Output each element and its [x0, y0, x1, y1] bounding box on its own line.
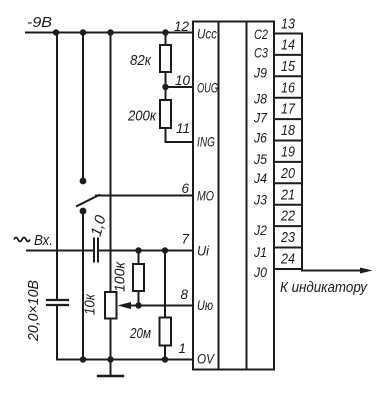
- svg-text:J6: J6: [253, 130, 267, 146]
- svg-text:11: 11: [176, 121, 190, 136]
- svg-text:14: 14: [281, 38, 295, 54]
- svg-text:MO: MO: [197, 188, 214, 204]
- svg-text:Вх.: Вх.: [34, 232, 53, 249]
- svg-text:100к: 100к: [112, 261, 129, 292]
- svg-text:21: 21: [280, 188, 295, 204]
- svg-text:6: 6: [181, 181, 189, 196]
- svg-text:20,0×10В: 20,0×10В: [25, 280, 42, 342]
- svg-text:-9В: -9В: [27, 14, 52, 31]
- svg-text:J7: J7: [253, 110, 268, 126]
- svg-text:J3: J3: [253, 192, 267, 208]
- svg-text:12: 12: [174, 19, 190, 34]
- svg-text:16: 16: [281, 81, 296, 97]
- svg-text:1: 1: [178, 341, 186, 356]
- svg-text:82к: 82к: [130, 52, 152, 69]
- svg-text:J1: J1: [253, 244, 267, 260]
- svg-text:22: 22: [280, 209, 295, 225]
- svg-text:10: 10: [175, 73, 191, 88]
- svg-text:18: 18: [281, 123, 295, 139]
- svg-text:Ui: Ui: [197, 243, 210, 259]
- svg-text:J5: J5: [253, 151, 267, 167]
- svg-text:1,0: 1,0: [88, 213, 110, 238]
- svg-text:20м: 20м: [129, 325, 151, 342]
- svg-text:24: 24: [280, 252, 295, 268]
- svg-text:8: 8: [180, 287, 188, 302]
- svg-text:C2: C2: [254, 26, 268, 42]
- svg-text:J4: J4: [253, 170, 267, 186]
- svg-text:13: 13: [281, 17, 295, 33]
- svg-text:J8: J8: [253, 91, 267, 107]
- svg-text:C3: C3: [254, 45, 268, 61]
- svg-text:200к: 200к: [127, 108, 157, 125]
- svg-text:10к: 10к: [82, 293, 99, 315]
- svg-text:23: 23: [280, 230, 295, 246]
- svg-text:7: 7: [181, 232, 189, 247]
- svg-text:Uю: Uю: [197, 297, 213, 313]
- svg-text:15: 15: [281, 59, 296, 75]
- svg-text:ING: ING: [197, 134, 215, 150]
- svg-text:OUG: OUG: [197, 80, 218, 96]
- svg-text:J0: J0: [253, 264, 267, 280]
- svg-text:20: 20: [280, 166, 295, 182]
- svg-text:19: 19: [281, 145, 295, 161]
- svg-text:17: 17: [281, 102, 296, 118]
- svg-text:Ucc: Ucc: [197, 26, 217, 42]
- svg-text:OV: OV: [197, 351, 215, 367]
- svg-text:К индикатору: К индикатору: [280, 279, 368, 296]
- svg-text:J2: J2: [253, 222, 267, 238]
- svg-text:J9: J9: [253, 65, 267, 81]
